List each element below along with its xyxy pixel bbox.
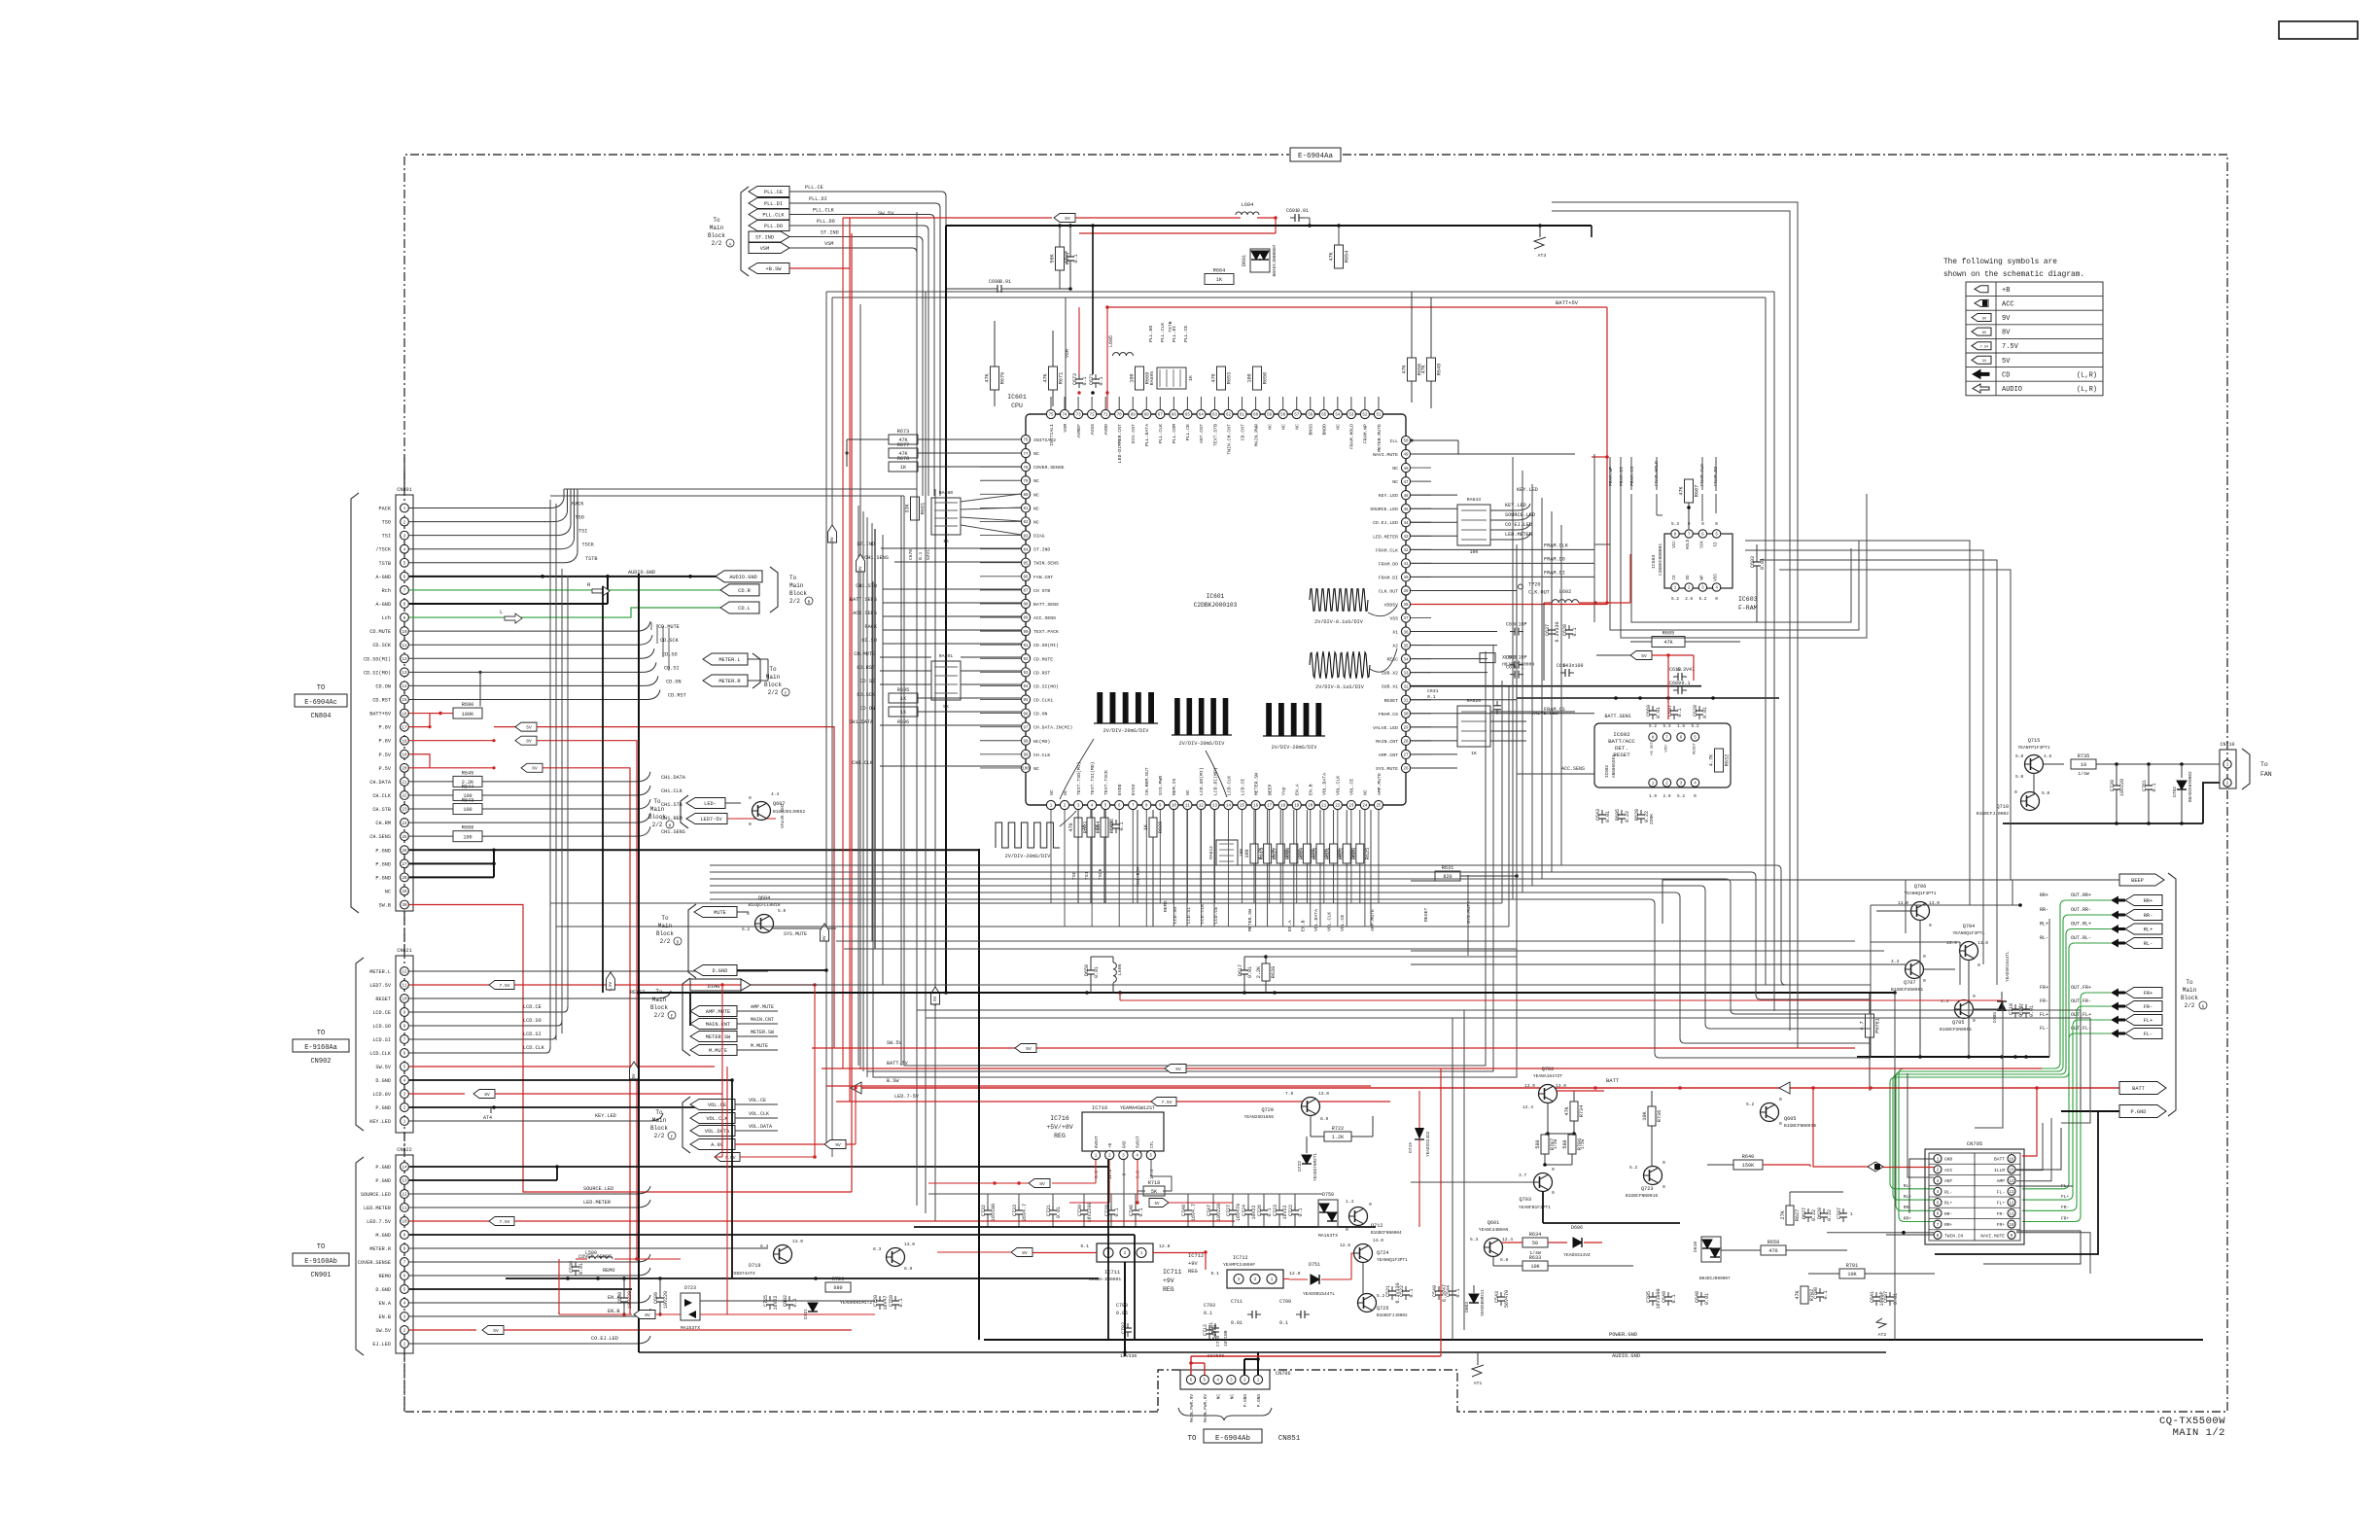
R696 1K to pin 96 — [889, 707, 918, 717]
svg-text:Q725: Q725 — [1377, 1306, 1388, 1312]
svg-text:C643: C643 — [1595, 809, 1601, 821]
svg-text:C521: C521 — [1385, 1285, 1391, 1297]
svg-text:A-GND: A-GND — [375, 602, 391, 608]
svg-text:12: 12 — [402, 1194, 407, 1198]
black vertical x753 D.GND — [731, 1080, 733, 1278]
svg-text:C686: C686 — [1109, 819, 1115, 830]
svg-text:To: To — [655, 1109, 663, 1116]
svg-text:BEEP: BEEP — [1267, 784, 1273, 795]
svg-text:Vsp: Vsp — [1280, 787, 1286, 795]
red BATT+5V long at y316 — [1107, 306, 1607, 308]
svg-text:EN.A: EN.A — [1287, 920, 1293, 931]
svg-text:56: 56 — [1308, 414, 1313, 418]
svg-text:D617: D617 — [1238, 964, 1243, 976]
svg-text:17: 17 — [1267, 805, 1273, 809]
flag VOL.CE — [690, 1100, 735, 1110]
svg-text:R664: R664 — [1213, 268, 1225, 274]
svg-text:92: 92 — [1023, 658, 1029, 662]
svg-text:VOL.DATA: VOL.DATA — [1322, 773, 1328, 795]
svg-text:5.0: 5.0 — [2042, 790, 2050, 796]
svg-text:5V: 5V — [633, 1073, 637, 1079]
svg-text:D.GND: D.GND — [713, 968, 728, 974]
leader curve to pin 14 — [1206, 751, 1227, 797]
svg-text:Main: Main — [789, 582, 804, 589]
caps below IC602 C643 R605 R628 etc — [1601, 810, 1603, 815]
svg-text:16: 16 — [2009, 1158, 2014, 1162]
border frame E-6904Aa (dash-dot) — [404, 155, 1289, 1412]
svg-text:88: 88 — [1023, 604, 1029, 608]
svg-text:10V220: 10V220 — [2119, 779, 2125, 796]
connector CN902 (CN621) body — [396, 956, 413, 1133]
svg-text:R681: R681 — [921, 503, 927, 514]
ILLM/AMP wires up from CN705 — [2016, 1123, 2043, 1171]
svg-text:CH1.REM: CH1.REM — [1136, 867, 1141, 887]
svg-text:FR+: FR+ — [2144, 991, 2153, 997]
svg-text:VSM: VSM — [824, 241, 833, 247]
svg-text:77: 77 — [1023, 453, 1029, 457]
svg-text:EN.B: EN.B — [1300, 920, 1306, 931]
svg-text:NAVI.MUTE: NAVI.MUTE — [1980, 1233, 2005, 1239]
CH1.CLK stub — [880, 765, 1021, 767]
R695 1K to pin 95 — [889, 693, 918, 703]
svg-text:TSCK: TSCK — [1098, 868, 1103, 880]
svg-text:Q712: Q712 — [1371, 1223, 1382, 1229]
svg-text:10K: 10K — [1847, 1272, 1857, 1277]
C609 cap 0.1 — [1673, 689, 1678, 691]
svg-text:C708: C708 — [1813, 1287, 1819, 1299]
svg-text:16: 16 — [402, 713, 407, 717]
svg-text:0: 0 — [1694, 794, 1697, 799]
svg-text:TWIN.CH: TWIN.CH — [1944, 1233, 1964, 1239]
svg-text:4.7K: 4.7K — [1258, 847, 1264, 859]
R676 47K — [991, 367, 999, 390]
svg-text:INITIAL2: INITIAL2 — [1033, 437, 1056, 443]
brace To Main Block 2/2 B — [770, 567, 778, 612]
resistor array RA680 1K — [931, 498, 961, 535]
svg-text:R640: R640 — [1742, 1154, 1754, 1160]
svg-text:RA626: RA626 — [1467, 698, 1482, 704]
svg-text:C705: C705 — [1646, 1291, 1652, 1303]
svg-text:C671: C671 — [1089, 373, 1095, 385]
transistor Q718 value — [887, 1248, 905, 1267]
svg-text:TSTB: TSTB — [379, 561, 391, 567]
svg-text:4.4: 4.4 — [771, 791, 780, 797]
svg-text:5.2: 5.2 — [1677, 794, 1685, 799]
svg-text:P.GND: P.GND — [375, 875, 391, 881]
svg-text:P.GND: P.GND — [375, 861, 391, 867]
wire D.GND CN901 — [409, 1288, 632, 1290]
svg-text:76: 76 — [1023, 439, 1029, 443]
svg-text:CN710: CN710 — [2220, 742, 2234, 748]
svg-text:PLL.CLK: PLL.CLK — [1160, 323, 1166, 342]
svg-text:COVER.SENSE: COVER.SENSE — [1033, 465, 1065, 471]
svg-text:5.3: 5.3 — [1671, 522, 1679, 527]
svg-text:To: To — [2260, 761, 2268, 768]
svg-text:B1GBCFJJ0002: B1GBCFJJ0002 — [1977, 811, 2009, 817]
svg-text:2V/DIV-20mS/DIV: 2V/DIV-20mS/DIV — [1272, 745, 1318, 751]
svg-text:P.GND: P.GND — [2131, 1109, 2147, 1115]
svg-text:46: 46 — [1403, 495, 1409, 499]
svg-text:SYS.MUTE: SYS.MUTE — [784, 931, 807, 937]
vertical flag 7.5V on bus — [607, 972, 615, 990]
svg-text:Block: Block — [2181, 995, 2198, 1001]
svg-text:TSTB: TSTB — [1168, 321, 1173, 332]
black wires into CN706 pins 2,1 — [1243, 1359, 1245, 1375]
flag M.MUTE — [690, 1045, 737, 1056]
R720 680 — [825, 1282, 851, 1292]
svg-text:0.01: 0.01 — [1056, 1207, 1062, 1218]
svg-text:470: 470 — [1068, 822, 1074, 831]
svg-text:YEADSS14VZ: YEADSS14VZ — [1563, 1252, 1591, 1258]
svg-text:CH.CLK: CH.CLK — [372, 793, 392, 799]
svg-text:OUT.RR+: OUT.RR+ — [2071, 892, 2091, 898]
svg-text:26: 26 — [402, 850, 407, 854]
resistor array RA626 1K pins 29-26 — [1457, 706, 1490, 747]
svg-text:R735: R735 — [2078, 753, 2089, 759]
svg-text:VSM: VSM — [1065, 349, 1070, 358]
svg-text:48: 48 — [1403, 468, 1409, 472]
svg-text:18: 18 — [402, 740, 407, 744]
svg-text:RR+: RR+ — [1944, 1222, 1953, 1228]
svg-text:VCC: VCC — [1673, 541, 1677, 548]
svg-text:KEY.LED: KEY.LED — [369, 1119, 391, 1125]
svg-text:5V: 5V — [526, 725, 532, 731]
svg-text:IC716: IC716 — [1050, 1115, 1069, 1122]
svg-text:45: 45 — [1403, 508, 1409, 512]
transistor Q720 YEAN2SD1856 — [1302, 1098, 1320, 1116]
svg-text:Q715: Q715 — [2028, 738, 2040, 744]
svg-text:0: 0 — [1779, 1097, 1782, 1102]
caps row C540 C544 C543 area — [1438, 1286, 1440, 1291]
IC601 left pin stub wires — [980, 439, 1021, 768]
svg-text:27: 27 — [402, 863, 407, 867]
hex flag 8V — [515, 736, 537, 745]
svg-text:25: 25 — [402, 836, 407, 840]
svg-text:RL+: RL+ — [1904, 1194, 1912, 1200]
svg-text:12.4: 12.4 — [1502, 1237, 1513, 1242]
svg-text:NC: NC — [1280, 424, 1286, 430]
svg-text:CN851: CN851 — [1278, 1435, 1301, 1443]
svg-text:CH STB: CH STB — [1033, 588, 1050, 594]
R674 56K C674 0.1 — [1056, 247, 1065, 270]
svg-text:E-6904Aa: E-6904Aa — [1298, 153, 1334, 160]
svg-text:R634: R634 — [1529, 1232, 1541, 1238]
C761 cap 0.1 — [2148, 781, 2150, 786]
svg-text:AMP.MUTE: AMP.MUTE — [706, 1009, 730, 1015]
svg-text:IC601: IC601 — [1207, 593, 1225, 600]
svg-text:AT3: AT3 — [1538, 253, 1547, 259]
svg-text:METER.SW: METER.SW — [1253, 773, 1259, 795]
IC IC603 F-RAM body — [1664, 534, 1732, 588]
wire BATT+5V pin16 with R690 — [409, 713, 453, 715]
svg-text:E-6904Ac: E-6904Ac — [304, 699, 337, 707]
svg-text:0.1: 0.1 — [792, 1298, 798, 1307]
waveform scope trace (2V/DIV 0.1uS/DIV) upper — [1310, 589, 1368, 612]
R678 1K to pin 78 — [889, 462, 918, 472]
svg-text:R643: R643 — [462, 798, 473, 804]
svg-text:16V22: 16V22 — [773, 1295, 779, 1310]
wire black top bus — [946, 225, 1592, 227]
svg-text:2.6: 2.6 — [1685, 597, 1693, 602]
flag MAIN.CNT — [690, 1019, 737, 1030]
svg-text:0.01: 0.01 — [1605, 811, 1611, 822]
svg-text:YEANHQ1F3PT1: YEANHQ1F3PT1 — [1904, 891, 1936, 896]
IC603 pins 1-4 bottom — [1671, 583, 1679, 591]
svg-text:CD.SO(MI): CD.SO(MI) — [364, 656, 391, 662]
svg-text:15: 15 — [2009, 1170, 2014, 1173]
svg-text:D.GND: D.GND — [375, 1078, 391, 1084]
svg-text:YEANHQ1F3PT1: YEANHQ1F3PT1 — [1377, 1258, 1408, 1263]
svg-text:MAIN.CNT: MAIN.CNT — [706, 1022, 730, 1028]
svg-text:C711: C711 — [1231, 1299, 1242, 1305]
svg-text:POWER.GND: POWER.GND — [1609, 1332, 1637, 1338]
C610 cap 6.3V47 — [1673, 676, 1678, 678]
svg-text:7.5V: 7.5V — [724, 1155, 735, 1161]
svg-text:2V/DIV-20mS/DIV: 2V/DIV-20mS/DIV — [1005, 854, 1052, 859]
svg-text:IC602: IC602 — [1613, 731, 1630, 738]
svg-text:ACC: ACC — [1944, 1168, 1953, 1173]
svg-text:RR+: RR+ — [1904, 1215, 1912, 1221]
svg-text:CN804: CN804 — [310, 713, 331, 720]
CH1.SENS stub — [894, 561, 1021, 563]
svg-text:R688: R688 — [462, 825, 473, 831]
svg-text:M.GND: M.GND — [375, 1233, 391, 1239]
R607 47K — [1685, 479, 1694, 503]
svg-text:TEXT.PACK: TEXT.PACK — [1033, 629, 1059, 635]
svg-text:NC: NC — [1295, 424, 1301, 430]
bus lines cap row — [928, 1193, 1322, 1195]
red vertical x748 SW.5V — [726, 1067, 728, 1314]
svg-text:CD: CD — [2002, 371, 2010, 379]
connector CN901 pins 14-1 — [358, 1163, 409, 1348]
svg-text:NC: NC — [1217, 1394, 1222, 1400]
svg-text:A-GND: A-GND — [375, 575, 391, 580]
waveform scope trace (2V/DIV 20mS/DIV) bottom-left inside — [1097, 692, 1102, 723]
svg-text:C710: C710 — [1215, 1336, 1221, 1347]
svg-text:OUT.RR-: OUT.RR- — [2071, 907, 2091, 913]
ground squiggle AT1 — [1477, 1352, 1479, 1365]
red wire BATT to CN705 pin16 — [2022, 1088, 2037, 1156]
svg-text:FRAM.HOLD: FRAM.HOLD — [1349, 424, 1355, 449]
svg-text:B0ADCK0X0002: B0ADCK0X0002 — [2188, 771, 2193, 802]
thick black A-GND vertical x620 — [602, 586, 604, 993]
svg-text:TEXT.TSCK: TEXT.TSCK — [1103, 770, 1109, 795]
hex flag 8V at IC716 — [928, 1182, 1029, 1184]
svg-text:12: 12 — [402, 658, 407, 662]
svg-text:Main: Main — [652, 1117, 667, 1124]
flag BATT — [2119, 1082, 2166, 1095]
C690 cap 0.01 — [993, 288, 997, 290]
wires EN.A EN.B — [409, 1302, 637, 1304]
audio section ground bus — [1857, 1056, 2049, 1058]
svg-text:52: 52 — [1362, 414, 1368, 418]
verticals from FRAM area down — [1594, 457, 1610, 544]
svg-text:CD.RST: CD.RST — [372, 697, 391, 703]
dual diode D610 B04DCJ000007 — [1701, 1237, 1721, 1262]
svg-text:D722: D722 — [1297, 1161, 1303, 1172]
svg-text:AUDIO.GND: AUDIO.GND — [628, 570, 655, 576]
svg-text:METER.L: METER.L — [718, 657, 740, 663]
svg-text:CD.CLK1: CD.CLK1 — [1033, 698, 1053, 704]
svg-text:CN902: CN902 — [310, 1058, 331, 1066]
svg-text:CD.SO: CD.SO — [662, 651, 678, 657]
svg-text:0.1: 0.1 — [1823, 1290, 1829, 1299]
svg-text:10V220: 10V220 — [627, 1291, 633, 1309]
svg-text:10: 10 — [2009, 1224, 2014, 1228]
svg-text:1/4W: 1/4W — [2078, 771, 2089, 777]
svg-text:SI: SI — [1715, 542, 1719, 547]
svg-text:LCD.CE: LCD.CE — [1240, 779, 1245, 795]
svg-text:PLL.CLK: PLL.CLK — [813, 208, 835, 214]
svg-text:R718: R718 — [1148, 1180, 1160, 1186]
C601 cap 0.01 — [1290, 217, 1295, 219]
svg-text:METER.SW: METER.SW — [1247, 909, 1253, 931]
svg-text:0: 0 — [1701, 522, 1704, 527]
svg-text:Q720: Q720 — [1262, 1107, 1274, 1113]
svg-text:11: 11 — [402, 985, 407, 989]
svg-text:SYS.PWR: SYS.PWR — [1158, 776, 1164, 795]
svg-text:52V1: 52V1 — [926, 549, 931, 560]
svg-text:7.5V: 7.5V — [1161, 1100, 1172, 1105]
svg-text:CD.SI: CD.SI — [664, 665, 680, 671]
R658 470 — [1761, 1245, 1786, 1255]
wire METER.R — [409, 1247, 768, 1249]
gray loop left-mid — [767, 659, 769, 681]
svg-text:4.4: 4.4 — [1941, 998, 1949, 1004]
long gray horizontals y968/y976 mid — [836, 940, 1855, 942]
svg-text:CH1.CLK: CH1.CLK — [852, 760, 874, 766]
svg-text:C731: C731 — [1046, 1205, 1052, 1216]
svg-text:C636: C636 — [1506, 622, 1518, 628]
IC601 bottom pin stub wires — [1051, 810, 1379, 927]
svg-text:100: 100 — [1247, 373, 1253, 382]
svg-text:RL+: RL+ — [2040, 922, 2048, 927]
wires METER.L/R — [748, 658, 768, 660]
svg-text:220K: 220K — [1649, 814, 1655, 824]
wire EJ.LED — [409, 1343, 637, 1345]
svg-text:FL-: FL- — [1997, 1189, 2005, 1195]
svg-text:(L,R): (L,R) — [2077, 386, 2097, 394]
connector CN901 (CN622) body — [396, 1155, 413, 1353]
svg-text:2V/DIV-0.1uS/DIV: 2V/DIV-0.1uS/DIV — [1315, 684, 1365, 690]
svg-text:5.8: 5.8 — [1500, 1257, 1509, 1263]
svg-text:AT2: AT2 — [1878, 1332, 1887, 1338]
svg-text:42: 42 — [1403, 549, 1409, 553]
VSM vertical wire — [1065, 297, 1067, 409]
svg-text:470: 470 — [1768, 1248, 1777, 1254]
svg-text:0.1: 0.1 — [918, 551, 924, 560]
svg-text:C641: C641 — [1870, 1291, 1875, 1303]
svg-text:7.5V: 7.5V — [2002, 343, 2019, 351]
svg-text:SOURCE.LED: SOURCE.LED — [1370, 507, 1398, 512]
svg-text:C2DBKJ000103: C2DBKJ000103 — [1194, 602, 1238, 609]
svg-text:100: 100 — [1470, 549, 1479, 555]
svg-text:RL+: RL+ — [1944, 1201, 1953, 1207]
svg-text:1K: 1K — [900, 465, 907, 471]
svg-text:5.2: 5.2 — [742, 927, 751, 932]
svg-text:13: 13 — [402, 1180, 407, 1184]
svg-text:YEADSR1544TL: YEADSR1544TL — [1303, 1291, 1335, 1297]
svg-text:TWIN.SENS: TWIN.SENS — [1033, 561, 1059, 567]
svg-text:VOL.CE: VOL.CE — [1340, 915, 1346, 931]
svg-text:MAIN.PWR.9V: MAIN.PWR.9V — [1204, 1394, 1208, 1422]
flag LED7-5V — [686, 814, 727, 824]
svg-text:2/2: 2/2 — [712, 240, 722, 247]
svg-text:METER.SW: METER.SW — [706, 1034, 731, 1040]
svg-text:CD.CNT: CD.CNT — [1240, 424, 1245, 440]
svg-text:MA153TX: MA153TX — [1318, 1233, 1338, 1239]
svg-text:95: 95 — [1023, 699, 1029, 703]
svg-text:OUT.RL+: OUT.RL+ — [2071, 922, 2091, 927]
svg-text:Main: Main — [652, 997, 667, 1003]
ground squiggle AT3 top — [1539, 226, 1541, 237]
flag LED- — [686, 798, 725, 809]
svg-text:H: H — [669, 823, 672, 829]
svg-text:VOL.DATA: VOL.DATA — [705, 1129, 730, 1135]
CH1.DATA stub — [880, 724, 1021, 726]
IC602 pins 1-4 bottom — [1649, 779, 1657, 787]
svg-text:0.01: 0.01 — [1094, 966, 1100, 978]
svg-text:P.8V: P.8V — [379, 725, 392, 731]
svg-text:FRAM.DI: FRAM.DI — [1379, 575, 1398, 580]
svg-text:Q723: Q723 — [1641, 1186, 1653, 1192]
svg-text:TP20: TP20 — [1528, 581, 1540, 587]
svg-text:6.3V330: 6.3V330 — [1555, 621, 1560, 642]
svg-text:P.GND: P.GND — [375, 848, 391, 854]
svg-text:ACC: ACC — [2002, 300, 2014, 308]
svg-text:FL-: FL- — [2144, 1032, 2153, 1037]
wire NAVI.MUTE pin49 — [1411, 453, 1575, 455]
svg-text:CN901: CN901 — [310, 1272, 331, 1279]
svg-text:C739: C739 — [2110, 780, 2116, 791]
svg-text:0: 0 — [1715, 522, 1718, 527]
svg-text:18: 18 — [2081, 762, 2086, 768]
svg-text:TO: TO — [1187, 1435, 1197, 1443]
wire AUDIO.GND from pins 6,8 — [409, 576, 717, 577]
svg-text:C609: C609 — [1669, 681, 1681, 686]
caps row right C727 C724 C726 C723 C722 — [1232, 1206, 1234, 1210]
svg-text:0.01: 0.01 — [1297, 208, 1309, 214]
caps C720 16V47 C759 0.1 — [879, 1296, 881, 1301]
svg-text:Block: Block — [650, 1125, 668, 1132]
svg-text:EJ.LED: EJ.LED — [372, 1342, 391, 1347]
IC601 bottom pins 1-25 — [1046, 761, 1382, 809]
svg-text:WP: WP — [1700, 575, 1704, 580]
svg-text:EVSS: EVSS — [1131, 784, 1137, 795]
R609 1K — [1149, 818, 1157, 837]
svg-text:0.01: 0.01 — [999, 279, 1011, 285]
svg-text:FRAM.DO: FRAM.DO — [1379, 561, 1398, 567]
svg-text:IC603: IC603 — [1651, 554, 1657, 569]
svg-text:5V: 5V — [1175, 1067, 1181, 1072]
waveform scope trace (2V/DIV 20mS/DIV) bottom-mid inside — [1174, 698, 1180, 735]
svg-text:24: 24 — [402, 822, 407, 826]
verticals mid x1460-1520 — [1452, 1018, 1453, 1340]
svg-text:3.7: 3.7 — [1519, 1172, 1527, 1178]
svg-text:10: 10 — [402, 631, 407, 635]
svg-text:PLL.DI: PLL.DI — [764, 201, 783, 207]
R631 820 — [1435, 871, 1460, 881]
svg-text:0.1: 0.1 — [1572, 627, 1578, 636]
svg-text:ST.IND: ST.IND — [1033, 547, 1050, 553]
svg-text:CD.EJ.LED: CD.EJ.LED — [1373, 520, 1398, 526]
svg-text:FRAM.DI: FRAM.DI — [1544, 570, 1565, 576]
svg-text:RESET: RESET — [1384, 698, 1399, 704]
svg-text:LED.METER: LED.METER — [364, 1206, 391, 1211]
wire BATT+5V red bus — [1079, 232, 1276, 234]
svg-text:R695: R695 — [897, 687, 909, 693]
svg-text:PLL.DO: PLL.DO — [817, 219, 835, 225]
